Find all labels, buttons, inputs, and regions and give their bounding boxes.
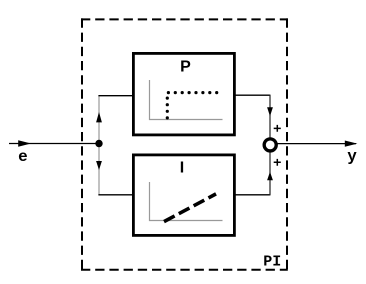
svg-text:y: y [347, 147, 357, 165]
wire: into I input [98, 194, 133, 196]
svg-text:e: e [18, 148, 28, 166]
node: branch point [95, 140, 102, 147]
summing junction circle [264, 139, 276, 151]
plus sign upper [274, 125, 281, 132]
svg-text:P: P [180, 59, 191, 76]
svg-text:PI: PI [263, 254, 281, 271]
arrowhead on input wire [18, 140, 31, 146]
wire: I output [235, 194, 270, 196]
dashed controller boundary box [81, 18, 288, 270]
arrowhead up into summing junction [267, 172, 273, 181]
arrowhead down (to I) [96, 161, 102, 170]
wire: branch down from node [98, 144, 100, 196]
block I [133, 155, 234, 236]
wire: P output [235, 94, 270, 96]
P step-response dotted curve [166, 91, 219, 120]
arrowhead down into summing junction [267, 107, 273, 116]
output arrowhead [345, 141, 358, 147]
arrowhead up (to P) [96, 112, 102, 122]
wire: into P input [98, 95, 133, 97]
plus sign lower [274, 159, 281, 166]
wire: P output down to summing junction [269, 95, 271, 139]
I ramp dashed line [164, 194, 216, 222]
wire: output y [277, 143, 356, 145]
svg-text:I: I [180, 160, 184, 177]
P graph axes [149, 80, 223, 120]
I graph axes [149, 182, 223, 221]
block P [133, 53, 234, 134]
wire: branch up from node [98, 96, 100, 143]
wire: input e [9, 143, 99, 145]
wire: I output up to summing junction [269, 152, 271, 196]
